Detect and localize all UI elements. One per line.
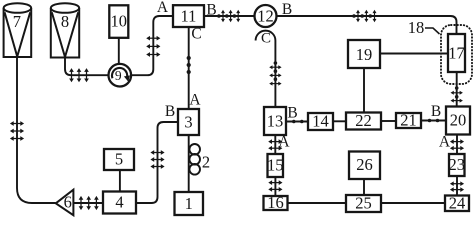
box 22 <box>346 113 381 130</box>
wire box19 to box22 <box>363 68 365 113</box>
two dots on wire 13-14 <box>292 120 304 124</box>
coil 2 <box>189 144 200 175</box>
svg-text:B: B <box>165 103 175 120</box>
svg-text:21: 21 <box>400 111 417 130</box>
flexible section arrows on wire 7-6 <box>10 121 24 141</box>
wire box5 to box4 <box>119 170 121 192</box>
svg-text:17: 17 <box>448 44 465 63</box>
svg-text:8: 8 <box>61 12 69 31</box>
svg-text:10: 10 <box>111 12 128 31</box>
svg-text:A: A <box>157 0 169 16</box>
svg-text:15: 15 <box>267 156 284 175</box>
box 16 <box>264 196 288 210</box>
wire box13 to box15 <box>274 135 276 154</box>
wire box20 to box23 <box>456 135 458 155</box>
pointer line 18 to enclosure <box>425 28 440 34</box>
box 20 <box>446 107 470 135</box>
box 24 <box>445 196 469 212</box>
flexible section arrows on wire 4-3 <box>150 150 164 169</box>
wire box21 to box20 <box>421 120 446 122</box>
box 25 <box>346 195 381 212</box>
pump 9 rotation arrow <box>112 68 127 78</box>
svg-text:14: 14 <box>312 112 329 131</box>
three dots on wire 11-3 <box>187 56 191 74</box>
svg-text:A: A <box>278 134 290 151</box>
wire nozzle6 to box4 <box>73 202 103 204</box>
arrows on wire 15-16 <box>268 180 282 191</box>
box 3 <box>178 109 199 135</box>
dotted flexible symbol on wire 12-13 <box>269 61 281 85</box>
wire box19 to box17 <box>380 53 448 55</box>
wire cylinder8 to pump9 <box>65 57 109 75</box>
svg-text:23: 23 <box>448 155 465 174</box>
wire box13 to box14 <box>286 121 308 123</box>
arrows on wire 23-24 <box>450 181 464 192</box>
svg-text:5: 5 <box>115 150 123 169</box>
cylinder 8 <box>51 3 79 57</box>
wire cylinder7 to nozzle6 <box>17 57 56 203</box>
flexible section arrows on wire 8-9 <box>69 68 89 82</box>
arrows on wire 20-23 <box>450 139 464 150</box>
box 5 <box>104 149 134 170</box>
wire pump9 to box11 port A <box>131 16 173 75</box>
svg-text:24: 24 <box>449 194 466 213</box>
wire pump12 C loop down to box13 <box>256 31 276 107</box>
wire box26 to box25 <box>363 179 365 195</box>
svg-text:18: 18 <box>408 18 425 37</box>
wire box14 to box22 <box>333 120 346 122</box>
wire box22 to box21 <box>381 120 396 122</box>
enclosure 18 dotted boundary <box>441 25 472 84</box>
flexible section arrows on wire 6-4 <box>79 196 99 210</box>
box 26 <box>349 152 380 180</box>
wire box3 to box1 <box>188 135 190 192</box>
wire box11 C to box3 A <box>188 27 190 109</box>
wire box23 to box24 <box>456 176 458 196</box>
svg-text:22: 22 <box>355 111 372 130</box>
svg-text:B: B <box>431 103 441 120</box>
svg-text:6: 6 <box>64 193 72 212</box>
wire box4 to box3 B <box>136 122 178 203</box>
svg-text:4: 4 <box>115 193 123 212</box>
svg-text:20: 20 <box>450 111 467 130</box>
box 21 <box>396 113 421 128</box>
wire box15 to box16 <box>274 177 276 196</box>
svg-text:C: C <box>261 30 271 46</box>
pump 12 circle <box>255 5 277 27</box>
dotted flexible symbol on wire 17-20 <box>451 86 463 102</box>
wire box11 B to valve12 <box>204 15 255 17</box>
box 13 <box>264 107 286 135</box>
dotted flexible symbol on wire 12-17 <box>352 10 376 22</box>
box 19 <box>348 40 380 68</box>
two dots on wire 21-20 <box>428 119 440 123</box>
arrows on wire 13-15 <box>268 139 282 150</box>
cylinder 7 <box>4 3 32 57</box>
box 23 <box>449 154 465 176</box>
svg-text:12: 12 <box>257 7 274 26</box>
svg-text:A: A <box>439 134 451 151</box>
box 4 <box>103 192 136 214</box>
svg-text:A: A <box>189 92 201 109</box>
svg-text:11: 11 <box>181 7 197 26</box>
nozzle 6 triangle <box>56 190 74 216</box>
wire box25 to box24 <box>381 202 445 204</box>
svg-text:13: 13 <box>267 112 284 131</box>
box 11 <box>173 5 204 27</box>
box 1 <box>175 192 204 215</box>
wire box17 to box20 <box>456 72 458 107</box>
wire box10 to pump9 <box>118 38 120 64</box>
box 17 <box>448 34 465 72</box>
dotted flexible symbol on wire 11-12 <box>217 10 240 22</box>
wire pump12 B to reactor17 <box>277 16 457 34</box>
flexible section arrows on wire 9-11 <box>146 36 160 57</box>
svg-text:25: 25 <box>355 194 372 213</box>
svg-text:2: 2 <box>202 153 210 172</box>
svg-text:1: 1 <box>185 194 193 213</box>
box 14 <box>308 113 333 130</box>
svg-text:B: B <box>287 105 297 122</box>
wire box16 to box25 <box>288 202 347 204</box>
svg-text:C: C <box>191 26 201 43</box>
svg-text:3: 3 <box>184 113 192 132</box>
svg-text:7: 7 <box>13 12 21 31</box>
svg-text:19: 19 <box>356 45 373 64</box>
box 10 <box>109 5 128 38</box>
box 15 <box>268 154 284 177</box>
svg-text:9: 9 <box>115 68 122 83</box>
pump U9 circle <box>109 64 132 87</box>
svg-text:16: 16 <box>267 193 284 212</box>
svg-text:26: 26 <box>356 155 373 174</box>
